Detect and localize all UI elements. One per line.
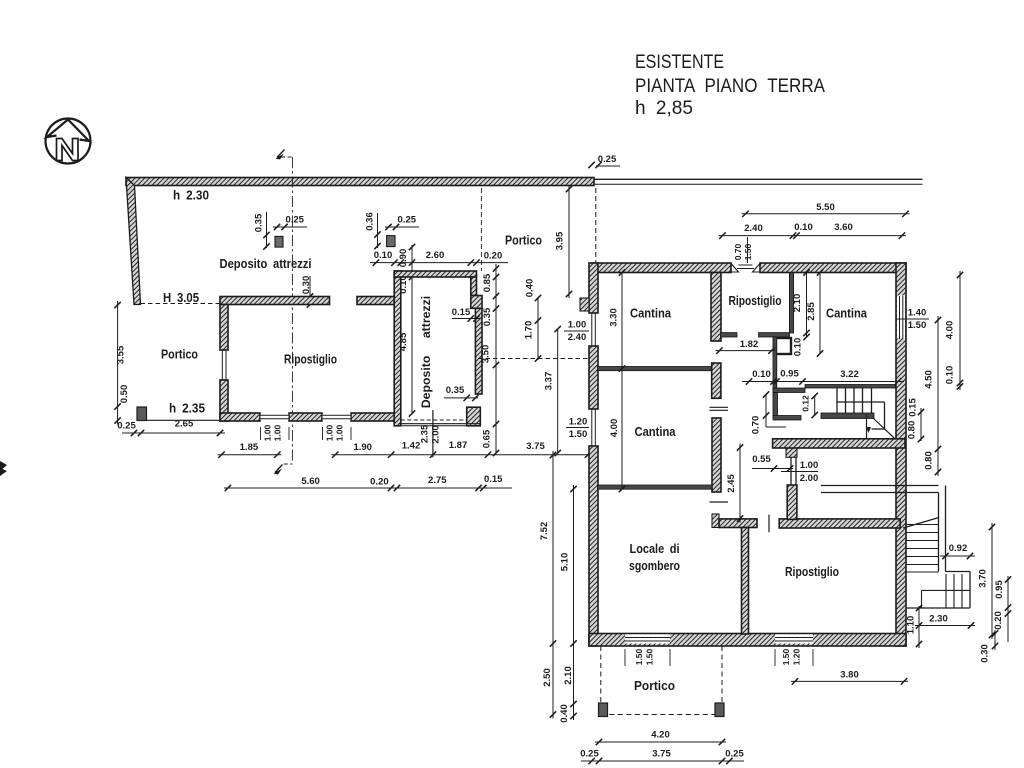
svg-text:Deposito attrezzi: Deposito attrezzi (419, 296, 433, 408)
internal stair mid rail (837, 401, 885, 403)
svg-text:1.85: 1.85 (240, 442, 259, 453)
svg-text:0.10: 0.10 (374, 250, 393, 261)
svg-text:0.70: 0.70 (733, 243, 743, 260)
svg-text:3.55: 3.55 (116, 345, 127, 364)
deposito bottom double edge line (399, 423, 481, 425)
right building top wall right of chimney (760, 263, 906, 273)
deposito right wall lower (475, 308, 482, 394)
svg-text:0.30: 0.30 (301, 276, 312, 295)
dim chain 0.10 0.95 3.22 (742, 381, 904, 383)
dashed line across portico gap (478, 358, 588, 360)
dim 2.45 vertical (739, 444, 741, 523)
dim 0.25 door2 (385, 226, 419, 228)
wall G cantina lower bottom thin (598, 485, 712, 489)
svg-text:1.00: 1.00 (263, 424, 273, 441)
svg-text:3.75: 3.75 (652, 749, 671, 760)
svg-text:3.37: 3.37 (544, 372, 555, 391)
dim 0.30 vertical (994, 630, 996, 650)
portico dashed boundary right (721, 646, 723, 715)
wall F lower block (712, 418, 721, 492)
dim 0.15 0.80 vertical (920, 408, 922, 441)
portico corner pillar (137, 407, 147, 421)
svg-text:h 2.35: h 2.35 (169, 401, 205, 416)
svg-text:2.35: 2.35 (419, 424, 430, 443)
svg-text:0.25: 0.25 (398, 214, 417, 225)
svg-text:Cantina: Cantina (826, 306, 868, 321)
ripostiglio bottom wall segment 2 (289, 413, 322, 421)
svg-text:1.40: 1.40 (908, 308, 927, 319)
svg-text:3.60: 3.60 (834, 222, 853, 233)
external stair outer step corner (946, 571, 971, 573)
external stair rail double line top (821, 485, 939, 487)
svg-text:Cantina: Cantina (630, 306, 672, 321)
wall B ripostiglio/cantina thin (789, 273, 793, 334)
dim 3.95 vertical between buildings (568, 185, 570, 298)
dashed separation line deposito/portico (480, 188, 482, 271)
svg-text:0.95: 0.95 (994, 580, 1005, 599)
internal stair corner rect (884, 402, 886, 429)
dim 1.85 line (218, 454, 282, 456)
dim 2.85 vertical (819, 273, 821, 354)
svg-text:Portico: Portico (634, 678, 675, 693)
svg-text:0.12: 0.12 (801, 395, 811, 412)
ripostiglio bottom wall segment 1 (220, 413, 260, 421)
dim chain 1.90 1.42 1.87 3.75 (331, 454, 592, 456)
svg-text:3.70: 3.70 (978, 569, 989, 588)
svg-text:3.22: 3.22 (840, 369, 859, 380)
dim 3.80 (791, 680, 908, 682)
door opening line below deposito with dims 2.35 2.00 (432, 410, 434, 457)
dim chain 0.10 2.60 0.20 above deposito (370, 262, 508, 264)
svg-text:0.20: 0.20 (484, 250, 503, 261)
svg-text:1.50: 1.50 (743, 243, 753, 260)
svg-text:1.50: 1.50 (569, 429, 588, 440)
svg-text:0.95: 0.95 (780, 369, 799, 380)
dashed separation line below boundary wall end (595, 188, 597, 263)
ripostiglio lower top wall (779, 519, 900, 528)
svg-text:1.82: 1.82 (740, 339, 759, 350)
svg-text:2.65: 2.65 (175, 419, 194, 430)
svg-text:2.75: 2.75 (428, 475, 447, 486)
north arrow letter N (57, 139, 79, 161)
svg-text:0.20: 0.20 (993, 611, 1004, 630)
external stair lower flight treads (945, 574, 947, 608)
svg-text:h 2,85: h 2,85 (635, 98, 693, 119)
dim 2.30 (915, 625, 975, 627)
svg-text:0.10: 0.10 (945, 366, 956, 385)
dim 4.00 0.10 vertical right (959, 271, 961, 390)
svg-text:0.25: 0.25 (285, 214, 304, 225)
pilaster on left wall (580, 298, 589, 311)
door leaf lines in wall F gap (710, 406, 729, 408)
svg-text:ESISTENTE: ESISTENTE (635, 52, 724, 73)
right building left wall segment 1 (589, 263, 598, 313)
window 1.50/1.20 in bottom wall (775, 634, 813, 643)
svg-text:7.52: 7.52 (539, 522, 550, 541)
svg-text:1.00: 1.00 (568, 320, 587, 331)
svg-text:1.87: 1.87 (449, 440, 468, 451)
door protrusion block (786, 448, 797, 458)
wall C horizontal thin segment 2 (759, 333, 790, 337)
dim 4.50 0.80 vertical (937, 316, 939, 476)
svg-text:0.36: 0.36 (365, 212, 376, 231)
dim 0.35 door1 (266, 212, 268, 248)
svg-text:1.90: 1.90 (353, 442, 372, 453)
svg-text:0.85: 0.85 (482, 273, 493, 292)
right building bottom wall (589, 634, 906, 647)
svg-text:Portico: Portico (161, 347, 198, 362)
svg-text:0.10: 0.10 (752, 369, 771, 380)
svg-text:2.00: 2.00 (431, 425, 442, 444)
svg-text:sgombero: sgombero (629, 558, 680, 573)
dim 0.30 ripostiglio top wall (309, 276, 311, 305)
external stair bottom edge (906, 607, 970, 609)
internal stair lower left thin wall (821, 413, 874, 419)
svg-text:0.15: 0.15 (484, 474, 503, 485)
internal stair treads (836, 388, 838, 414)
dim 0.36 door2 (377, 213, 379, 248)
dim 0.12 stair wall (814, 395, 816, 416)
svg-text:4.00: 4.00 (945, 321, 956, 340)
svg-text:2.00: 2.00 (800, 473, 819, 484)
door jamb line at ripostiglio lower (768, 515, 770, 533)
external stair diagonal break line (903, 518, 939, 529)
ripostiglio left wall lower (220, 380, 228, 421)
svg-text:2.30: 2.30 (929, 614, 948, 625)
under-stair closet bottom wall (773, 416, 801, 421)
svg-text:1.50: 1.50 (645, 648, 655, 665)
svg-text:0.25: 0.25 (725, 749, 744, 760)
dim chain 0.25 3.75 0.25 (581, 760, 744, 762)
centre line bottom arrow (284, 463, 293, 465)
under-stair closet left wall (773, 393, 778, 416)
stair top thin wall (805, 385, 896, 389)
svg-text:0.10: 0.10 (794, 222, 813, 233)
door swing line (781, 471, 818, 473)
svg-text:1.00: 1.00 (273, 424, 283, 441)
dim 0.25 door1 (273, 226, 307, 228)
svg-text:Ripostiglio: Ripostiglio (284, 352, 337, 367)
svg-text:0.90: 0.90 (398, 249, 409, 268)
dashed line at H 3.05 (141, 303, 221, 305)
svg-text:0.20: 0.20 (370, 477, 389, 488)
right building left wall segment 3 (589, 446, 598, 646)
internal stair direction arrow (866, 427, 871, 433)
svg-text:2.85: 2.85 (806, 302, 817, 321)
svg-text:1.00: 1.00 (325, 424, 335, 441)
svg-text:Ripostiglio: Ripostiglio (785, 564, 839, 579)
internal stair vertical line (866, 414, 868, 439)
ripostiglio top wall right segment to deposito (357, 297, 394, 305)
dim 3.30 4.00 vertical inside (621, 273, 623, 490)
external stair landing lines (922, 589, 971, 591)
dim 0.95 0.20 vertical (1007, 576, 1009, 642)
dim chain 2.40 0.10 3.60 (719, 235, 907, 237)
window 1.50/1.50 in bottom wall (625, 634, 670, 643)
deposito dashed threshold line (401, 419, 467, 421)
wall H vertical (742, 528, 749, 635)
svg-text:1.70: 1.70 (524, 321, 535, 340)
svg-text:3.95: 3.95 (555, 231, 566, 250)
svg-text:1.50: 1.50 (634, 648, 644, 665)
centre line top arrow (277, 150, 285, 158)
dim 5.50 (742, 213, 910, 215)
svg-text:0.92: 0.92 (949, 543, 968, 554)
dim chain 0.85 0.35 3.50 0.65 vertical (495, 264, 497, 453)
wall C horizontal thin segment 1 (720, 333, 737, 337)
svg-text:1.00: 1.00 (335, 424, 345, 441)
svg-text:2.45: 2.45 (726, 474, 737, 493)
svg-text:4.20: 4.20 (651, 730, 670, 741)
svg-text:PIANTA PIANO TERRA: PIANTA PIANO TERRA (635, 76, 825, 97)
wall H top cap small (712, 514, 719, 528)
north arrow head (47, 120, 89, 142)
north arrow circle (46, 119, 91, 164)
svg-text:0.35: 0.35 (446, 385, 465, 396)
svg-text:0.25: 0.25 (117, 421, 136, 432)
wall D vertical thin (773, 337, 777, 394)
right building top wall left of chimney (592, 263, 732, 273)
svg-text:1.50: 1.50 (781, 648, 791, 665)
svg-text:0.80: 0.80 (907, 421, 918, 440)
svg-text:5.50: 5.50 (816, 202, 835, 213)
dim 4.20 (595, 741, 726, 743)
window 1.40/1.50 in right wall (897, 296, 905, 339)
svg-text:0.40: 0.40 (525, 279, 536, 298)
external stair upper flight treads (906, 524, 939, 526)
internal stair diagonal break (873, 418, 895, 439)
dim 0.40 1.70 vertical (537, 298, 539, 360)
dim 0.70 closet (765, 394, 767, 427)
svg-text:0.65: 0.65 (482, 429, 493, 448)
svg-text:2.50: 2.50 (542, 668, 553, 687)
svg-text:4.50: 4.50 (924, 370, 935, 389)
deposito right wall upper (471, 277, 477, 296)
chimney vent in top wall (731, 264, 739, 273)
boundary wall double line to the right (594, 178, 923, 180)
svg-text:Ripostiglio: Ripostiglio (729, 293, 782, 308)
upper section bottom wall (773, 439, 905, 448)
svg-text:3.50: 3.50 (481, 345, 492, 364)
svg-text:3.80: 3.80 (840, 670, 859, 681)
dim 5.10 2.10 0.40 vertical (573, 485, 575, 720)
svg-text:0.35: 0.35 (254, 213, 265, 232)
window 2 in ripostiglio bottom wall (323, 414, 351, 420)
svg-text:0.30: 0.30 (980, 644, 991, 663)
ripostiglio bottom wall segment 3 (351, 413, 399, 421)
dim 0.25 2.65 line (122, 432, 225, 434)
svg-text:0.10: 0.10 (793, 338, 804, 357)
svg-text:1.20: 1.20 (792, 648, 802, 665)
svg-text:0.40: 0.40 (559, 704, 570, 723)
wall H top cap (719, 519, 757, 528)
door post square 2 (387, 236, 395, 247)
door post square 1 (275, 236, 283, 247)
deposito right wall step block (471, 296, 482, 309)
svg-text:0.50: 0.50 (119, 385, 130, 404)
svg-text:2.60: 2.60 (426, 250, 445, 261)
svg-text:H 3.05: H 3.05 (163, 290, 199, 305)
window 1.00/2.40 in left wall (591, 313, 593, 346)
dim 3.55 0.50 vertical left (117, 301, 119, 425)
svg-text:0.55: 0.55 (752, 454, 771, 465)
svg-text:2.40: 2.40 (568, 332, 587, 343)
dim 0.15 deposito right wall (452, 318, 480, 320)
portico floor edge line (141, 419, 221, 421)
svg-text:5.60: 5.60 (301, 476, 320, 487)
svg-text:1.10: 1.10 (906, 616, 917, 635)
svg-text:4.00: 4.00 (609, 419, 620, 438)
right building right wall (896, 263, 906, 646)
dim 7.52 2.50 vertical (552, 451, 554, 719)
portico dashed boundary left (600, 646, 602, 715)
dim 0.35 bottom right of deposito (444, 397, 478, 399)
window 1 in ripostiglio bottom wall (261, 414, 289, 420)
svg-text:2.40: 2.40 (744, 223, 763, 234)
dim 0.25 at boundary wall end (588, 162, 594, 168)
left building slanted left wall (126, 178, 141, 305)
dim 0.55 door (752, 468, 793, 470)
svg-text:Locale di: Locale di (630, 541, 680, 556)
page-edge mark left margin (0, 461, 7, 476)
svg-text:2.10: 2.10 (792, 294, 803, 313)
under-stair closet top wall (773, 388, 805, 393)
wall A cantina/ripostiglio (711, 273, 721, 342)
svg-text:1.20: 1.20 (569, 417, 588, 428)
dim 2.10 vertical (806, 273, 808, 338)
svg-text:3.75: 3.75 (526, 441, 545, 452)
dim 1.82 (716, 350, 776, 352)
dim 1.10 vertical (918, 606, 920, 648)
ripostiglio left wall upper (220, 305, 228, 351)
svg-text:Deposito attrezzi: Deposito attrezzi (220, 256, 312, 271)
external stair rail right vertical (938, 493, 940, 572)
portico pillar left (599, 703, 608, 717)
window in ripostiglio left wall (221, 350, 223, 380)
dim 3.70 vertical (991, 523, 993, 639)
wall F upper block (712, 363, 721, 398)
window 1.20/1.50 in left wall (591, 409, 593, 446)
deposito bottom-right corner block (467, 407, 481, 426)
dim 3.37 vertical (557, 329, 559, 453)
svg-text:0.25: 0.25 (580, 749, 599, 760)
svg-text:0.35: 0.35 (482, 307, 493, 326)
portico dashed boundary bottom (601, 714, 722, 716)
svg-text:0.25: 0.25 (598, 154, 617, 165)
dim 0.92 (940, 555, 975, 557)
svg-text:Cantina: Cantina (635, 424, 677, 439)
ripostiglio top wall left segment (220, 297, 330, 305)
flue box (774, 338, 791, 354)
dim 0.90 / 0.10 / 4.85 vertical line inside deposito (411, 245, 413, 414)
door channel 1.00/2.00 lines (790, 457, 792, 485)
dim chain 5.60 0.20 2.75 0.15 (224, 487, 512, 489)
svg-text:0.80: 0.80 (924, 451, 935, 470)
svg-text:3.30: 3.30 (609, 308, 620, 327)
wall E cantina bottom thin (598, 367, 712, 371)
svg-text:1.50: 1.50 (908, 320, 927, 331)
right building left wall segment 2 (589, 346, 598, 409)
deposito left wall (394, 271, 401, 426)
svg-text:1.42: 1.42 (402, 440, 421, 451)
deposito top wall (394, 271, 476, 277)
portico pillar right (715, 703, 724, 717)
svg-text:0.70: 0.70 (751, 416, 762, 435)
svg-text:0.15: 0.15 (908, 398, 919, 417)
svg-text:0.15: 0.15 (452, 307, 471, 318)
svg-text:h 2.30: h 2.30 (173, 188, 209, 203)
svg-text:2.10: 2.10 (563, 666, 574, 685)
left building top wall (126, 178, 594, 186)
svg-text:Portico: Portico (505, 233, 542, 248)
svg-text:1.00: 1.00 (800, 460, 819, 471)
section centre line vertical (291, 157, 293, 461)
wall I below door (787, 485, 797, 519)
door jamb line locale di sgombero (710, 501, 729, 503)
svg-text:5.10: 5.10 (560, 553, 571, 572)
